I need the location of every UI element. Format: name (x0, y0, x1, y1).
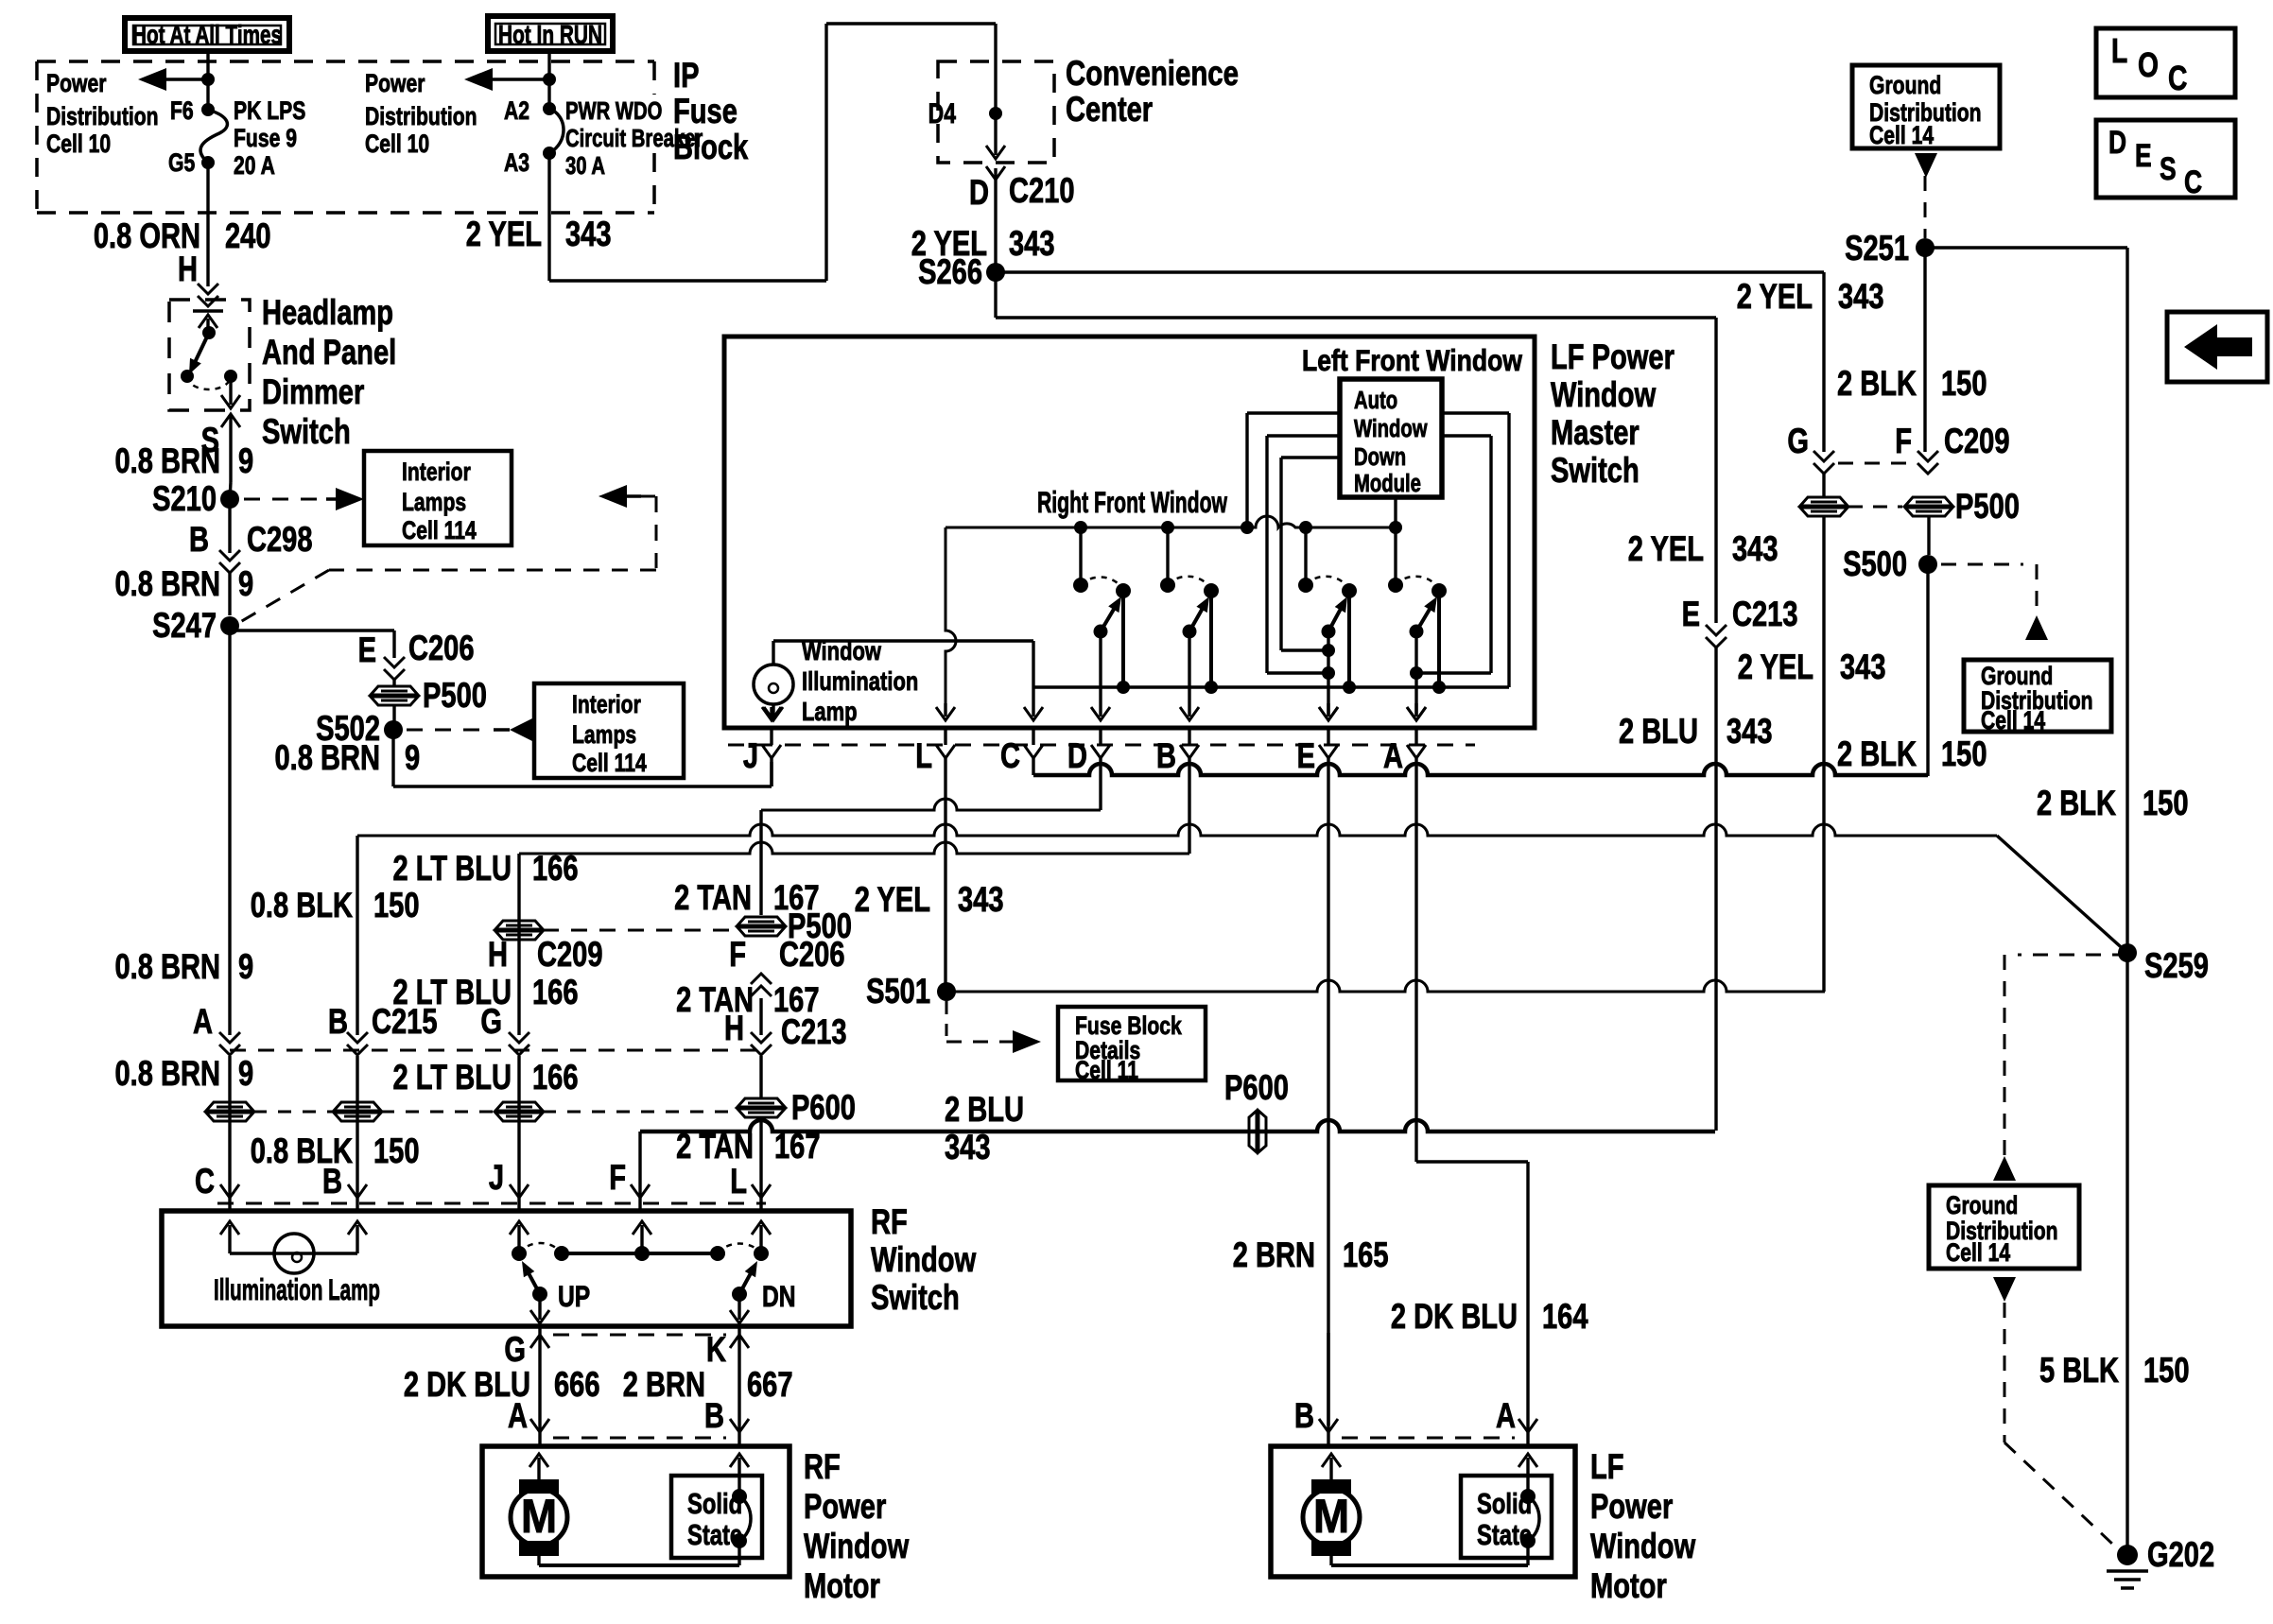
svg-text:F: F (1895, 423, 1912, 461)
svg-text:343: 343 (1840, 648, 1886, 687)
svg-text:O: O (2138, 46, 2159, 84)
svg-text:C206: C206 (779, 936, 845, 975)
svg-text:S259: S259 (2144, 947, 2209, 986)
svg-text:Cell 14: Cell 14 (1869, 122, 1935, 150)
svg-text:P600: P600 (1224, 1069, 1289, 1108)
svg-text:Distribution: Distribution (46, 103, 159, 131)
svg-text:166: 166 (532, 974, 579, 1012)
svg-text:C209: C209 (537, 936, 603, 975)
svg-text:Convenience: Convenience (1066, 55, 1239, 94)
svg-text:E: E (2135, 138, 2152, 174)
svg-text:E: E (1297, 737, 1315, 776)
svg-text:666: 666 (554, 1366, 600, 1405)
svg-text:Distribution: Distribution (365, 103, 477, 131)
svg-text:Switch: Switch (871, 1279, 960, 1318)
svg-text:UP: UP (558, 1280, 590, 1314)
svg-text:343: 343 (958, 881, 1004, 920)
svg-text:Switch: Switch (262, 413, 351, 452)
svg-text:0.8 BRN: 0.8 BRN (114, 1055, 220, 1094)
svg-text:L: L (2111, 32, 2127, 70)
svg-text:D: D (2108, 125, 2126, 161)
svg-text:Power: Power (1590, 1488, 1673, 1527)
svg-text:2 DK BLU: 2 DK BLU (404, 1366, 530, 1405)
svg-text:L: L (730, 1163, 747, 1201)
svg-text:2 YEL: 2 YEL (1737, 278, 1813, 317)
svg-text:Cell 11: Cell 11 (1075, 1057, 1138, 1085)
svg-text:B: B (1294, 1397, 1314, 1436)
svg-text:Hot At All Times: Hot At All Times (132, 20, 282, 49)
svg-text:Cell 114: Cell 114 (402, 517, 477, 545)
svg-text:P600: P600 (791, 1089, 856, 1128)
svg-text:And Panel: And Panel (262, 334, 396, 372)
svg-text:H: H (178, 251, 198, 289)
svg-text:9: 9 (238, 1055, 253, 1094)
svg-text:B: B (322, 1163, 342, 1201)
svg-text:Ground: Ground (1869, 72, 1941, 100)
svg-text:Window: Window (1354, 415, 1428, 442)
svg-text:F6: F6 (170, 97, 194, 126)
svg-text:C213: C213 (781, 1013, 847, 1052)
svg-text:A2: A2 (504, 97, 529, 126)
svg-text:667: 667 (747, 1366, 793, 1405)
svg-text:B: B (189, 521, 209, 560)
svg-text:2 YEL: 2 YEL (1738, 648, 1813, 687)
svg-text:C206: C206 (408, 630, 475, 668)
svg-text:G: G (480, 1003, 502, 1042)
svg-text:C298: C298 (247, 521, 313, 560)
svg-text:9: 9 (405, 739, 420, 778)
svg-text:Lamps: Lamps (402, 489, 466, 517)
svg-text:150: 150 (2143, 1352, 2190, 1391)
svg-text:H: H (724, 1010, 744, 1048)
svg-text:Cell 14: Cell 14 (1981, 707, 2046, 735)
svg-text:Lamps: Lamps (572, 721, 636, 750)
svg-text:Fuse 9: Fuse 9 (234, 125, 297, 153)
svg-text:2 LT BLU: 2 LT BLU (393, 1059, 512, 1097)
svg-text:343: 343 (945, 1129, 991, 1167)
svg-text:M: M (1313, 1491, 1349, 1543)
svg-text:G5: G5 (168, 149, 195, 178)
svg-text:Window: Window (804, 1528, 910, 1566)
svg-text:0.8 BRN: 0.8 BRN (274, 739, 380, 778)
svg-text:0.8 BRN: 0.8 BRN (114, 948, 220, 987)
svg-text:A3: A3 (504, 149, 529, 178)
svg-text:J: J (489, 1159, 504, 1198)
svg-text:Motor: Motor (1590, 1567, 1667, 1606)
svg-text:2 TAN: 2 TAN (676, 1128, 754, 1166)
svg-text:B: B (1156, 737, 1176, 776)
svg-text:343: 343 (1009, 225, 1055, 264)
svg-text:2 BLU: 2 BLU (945, 1091, 1024, 1130)
svg-text:343: 343 (1838, 278, 1884, 317)
svg-text:Illumination Lamp: Illumination Lamp (214, 1273, 380, 1307)
svg-text:P500: P500 (423, 677, 487, 716)
svg-text:A: A (193, 1003, 213, 1042)
svg-text:S: S (2160, 151, 2177, 187)
svg-text:F: F (729, 936, 746, 975)
svg-text:Auto: Auto (1354, 387, 1397, 414)
svg-text:2 BLK: 2 BLK (1837, 365, 1917, 404)
svg-text:LF: LF (1590, 1448, 1624, 1487)
svg-text:Interior: Interior (402, 458, 471, 487)
svg-text:Window: Window (1590, 1528, 1696, 1566)
svg-text:IP: IP (673, 57, 699, 95)
svg-text:Module: Module (1354, 470, 1421, 497)
svg-text:150: 150 (1941, 735, 1987, 774)
svg-text:30 A: 30 A (565, 152, 605, 180)
svg-text:G: G (504, 1331, 526, 1370)
svg-text:9: 9 (238, 565, 253, 604)
svg-text:2 YEL: 2 YEL (1628, 530, 1704, 569)
svg-text:2 YEL: 2 YEL (855, 881, 930, 920)
svg-text:RF: RF (804, 1448, 841, 1487)
svg-text:Dimmer: Dimmer (262, 373, 364, 412)
svg-text:S210: S210 (152, 480, 217, 519)
svg-text:E: E (1682, 596, 1700, 634)
svg-text:Fuse: Fuse (673, 93, 737, 131)
svg-text:C209: C209 (1944, 423, 2010, 461)
svg-text:Power: Power (804, 1488, 886, 1527)
svg-text:150: 150 (373, 1132, 420, 1171)
svg-text:RF: RF (871, 1203, 908, 1242)
svg-text:S251: S251 (1845, 230, 1909, 268)
svg-text:A: A (1383, 737, 1403, 776)
svg-text:D: D (1067, 737, 1087, 776)
svg-text:F: F (609, 1159, 626, 1198)
svg-text:Cell 10: Cell 10 (365, 130, 429, 159)
svg-text:Block: Block (673, 129, 749, 167)
svg-text:Hot In RUN: Hot In RUN (498, 20, 602, 49)
svg-text:C: C (1000, 737, 1020, 776)
svg-text:Center: Center (1066, 91, 1153, 130)
svg-text:Window: Window (871, 1241, 977, 1280)
svg-text:240: 240 (225, 217, 271, 256)
svg-text:P500: P500 (1955, 488, 2020, 527)
svg-text:B: B (328, 1003, 348, 1042)
svg-text:2 LT BLU: 2 LT BLU (393, 850, 512, 889)
svg-text:343: 343 (565, 216, 612, 254)
svg-text:S500: S500 (1843, 545, 1907, 584)
svg-text:167: 167 (774, 1128, 821, 1166)
svg-text:G: G (1787, 423, 1809, 461)
svg-text:S247: S247 (152, 607, 217, 646)
svg-text:Illumination: Illumination (802, 666, 918, 696)
svg-text:DN: DN (762, 1280, 796, 1314)
svg-text:S266: S266 (918, 253, 982, 292)
svg-text:PK LPS: PK LPS (234, 97, 305, 126)
svg-text:0.8 BRN: 0.8 BRN (114, 442, 220, 481)
svg-text:C: C (2168, 60, 2187, 97)
svg-text:S501: S501 (866, 973, 930, 1011)
svg-text:2 BLK: 2 BLK (2037, 785, 2116, 823)
svg-text:D: D (969, 174, 989, 213)
svg-text:H: H (488, 936, 508, 975)
svg-text:Cell 114: Cell 114 (572, 750, 647, 778)
svg-text:C213: C213 (1732, 596, 1798, 634)
svg-text:2 TAN: 2 TAN (674, 879, 752, 918)
svg-text:343: 343 (1726, 713, 1773, 752)
svg-text:C: C (195, 1163, 215, 1201)
svg-text:2 DK BLU: 2 DK BLU (1391, 1298, 1518, 1337)
svg-text:2 BLU: 2 BLU (1619, 713, 1698, 752)
svg-text:L: L (915, 737, 932, 776)
svg-text:343: 343 (1732, 530, 1778, 569)
svg-text:150: 150 (373, 887, 420, 925)
svg-text:2 YEL: 2 YEL (466, 216, 542, 254)
svg-text:9: 9 (238, 948, 253, 987)
svg-text:2 BLK: 2 BLK (1837, 735, 1917, 774)
svg-text:K: K (706, 1331, 726, 1370)
svg-text:PWR WDO: PWR WDO (565, 97, 662, 125)
svg-text:Down: Down (1354, 443, 1406, 471)
svg-text:0.8 BRN: 0.8 BRN (114, 565, 220, 604)
svg-text:C: C (2184, 164, 2202, 200)
svg-text:20 A: 20 A (234, 152, 275, 181)
svg-text:Motor: Motor (804, 1567, 880, 1606)
svg-text:Right Front Window: Right Front Window (1037, 486, 1228, 520)
svg-text:166: 166 (532, 850, 579, 889)
svg-text:E: E (358, 631, 376, 670)
svg-text:LF Power: LF Power (1551, 338, 1674, 377)
svg-text:G202: G202 (2147, 1536, 2214, 1575)
svg-text:150: 150 (2143, 785, 2189, 823)
svg-text:Interior: Interior (572, 691, 641, 719)
svg-text:C210: C210 (1009, 172, 1075, 211)
svg-text:Power: Power (365, 70, 425, 98)
svg-text:Window: Window (1551, 376, 1657, 415)
svg-text:Ground: Ground (1946, 1192, 2018, 1220)
svg-text:B: B (704, 1397, 724, 1436)
svg-text:Window: Window (802, 636, 881, 665)
svg-text:Cell 10: Cell 10 (46, 130, 111, 159)
svg-text:Cell 14: Cell 14 (1946, 1239, 2011, 1268)
svg-text:166: 166 (532, 1059, 579, 1097)
svg-text:J: J (743, 737, 758, 776)
svg-text:150: 150 (1941, 365, 1987, 404)
svg-text:Left Front Window: Left Front Window (1302, 344, 1523, 378)
svg-text:9: 9 (238, 442, 253, 481)
svg-text:164: 164 (1542, 1298, 1588, 1337)
svg-text:0.8 BLK: 0.8 BLK (251, 887, 353, 925)
svg-text:Switch: Switch (1551, 452, 1640, 491)
svg-text:Master: Master (1551, 414, 1640, 453)
svg-text:A: A (1496, 1397, 1516, 1436)
svg-text:Lamp: Lamp (802, 697, 858, 726)
svg-text:Power: Power (46, 70, 107, 98)
svg-text:5 BLK: 5 BLK (2039, 1352, 2119, 1391)
svg-text:165: 165 (1343, 1236, 1389, 1275)
svg-text:D4: D4 (928, 97, 957, 129)
svg-text:2 BRN: 2 BRN (1233, 1236, 1315, 1275)
svg-text:M: M (521, 1491, 557, 1543)
svg-text:2 BRN: 2 BRN (623, 1366, 705, 1405)
svg-text:Headlamp: Headlamp (262, 294, 393, 333)
